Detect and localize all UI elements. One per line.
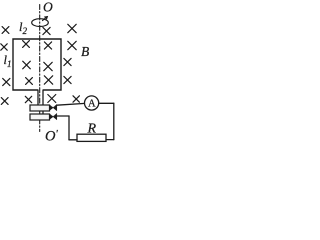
field symbol x row2 [1, 44, 7, 50]
wire brush2 to left corner [57, 115, 69, 117]
brush 1 (top) [50, 105, 57, 111]
rotation arrow ellipse around axis [32, 19, 49, 27]
svg-text:O′: O′ [45, 129, 58, 145]
field symbol x row4 [3, 78, 10, 85]
coil rectangular loop [13, 39, 61, 90]
wire left vertical [68, 116, 70, 140]
ammeter A1 [85, 96, 99, 110]
wire right vertical [113, 103, 115, 139]
svg-text:l2: l2 [19, 20, 27, 36]
field symbol x row5 [1, 98, 8, 105]
field symbol x row3 [23, 61, 31, 69]
rotation arrowhead [43, 18, 47, 21]
svg-text:A: A [88, 99, 96, 110]
wire ammeter to right corner [99, 102, 114, 104]
wire brush1 to ammeter [57, 103, 85, 105]
field symbol x row1 [2, 27, 9, 34]
wire lead right (coil to slip ring 2) [42, 90, 44, 115]
slip ring 2 [30, 114, 50, 120]
wire right corner to resistor [106, 139, 114, 141]
wire left corner to resistor [69, 139, 77, 141]
resistor R [77, 134, 106, 141]
axis OO' (dash-dot line) [39, 5, 41, 132]
svg-text:O: O [43, 0, 53, 15]
svg-text:B: B [81, 44, 89, 59]
svg-text:l1: l1 [4, 53, 12, 69]
slip ring 1 [30, 105, 50, 111]
wire lead left (coil to slip ring 1) [37, 90, 39, 106]
brush 2 (bottom) [50, 114, 57, 120]
svg-text:R: R [87, 122, 97, 137]
